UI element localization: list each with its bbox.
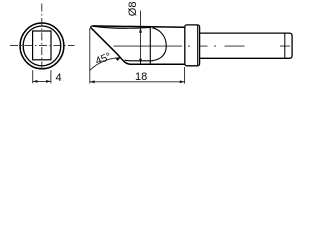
svg-text:18: 18 — [135, 71, 147, 83]
svg-text:4: 4 — [56, 72, 62, 84]
svg-text:45°: 45° — [94, 51, 113, 68]
svg-text:Ø8: Ø8 — [127, 2, 139, 17]
